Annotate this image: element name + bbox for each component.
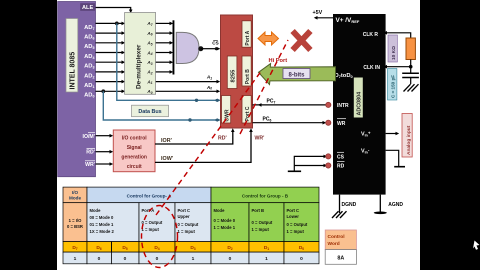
svg-text:1 = Input: 1 = Input — [178, 229, 196, 234]
svg-text:generation: generation — [121, 155, 147, 161]
wire CS to 8255 — [201, 48, 217, 50]
ALE label — [80, 3, 95, 11]
svg-text:0: 0 — [156, 256, 159, 262]
svg-text:0 = BSR: 0 = BSR — [67, 224, 83, 229]
svg-text:0 = Output: 0 = Output — [178, 222, 199, 227]
svg-text:A2: A2 — [146, 70, 152, 76]
svg-text:AGND: AGND — [388, 202, 403, 208]
resistor value label — [388, 35, 397, 62]
I/O mode header — [63, 187, 87, 203]
svg-text:RD': RD' — [86, 150, 95, 156]
node WR dot — [326, 120, 331, 125]
data bus line 2 — [103, 91, 218, 120]
wire A1 to 8255 — [156, 81, 218, 83]
svg-text:CS: CS — [337, 154, 345, 160]
svg-text:0: 0 — [300, 256, 303, 262]
svg-text:Control: Control — [328, 234, 345, 240]
table D7..D0 bit labels — [72, 245, 304, 251]
AGND leg — [379, 195, 381, 212]
svg-text:Control for Group - B: Control for Group - B — [242, 194, 289, 199]
svg-text:RD: RD — [337, 164, 345, 170]
annotation dashed callout lines — [142, 40, 289, 268]
wire Vin+ to analog input — [386, 133, 397, 135]
svg-text:0 = Mode 0: 0 = Mode 0 — [214, 218, 236, 223]
svg-text:1: 1 — [265, 256, 268, 262]
group A header — [87, 187, 211, 203]
de-multiplexer block — [125, 13, 156, 95]
wire CLK R to resistor — [386, 33, 411, 38]
table mode description texts — [67, 208, 308, 234]
wire IOW to 8255 WR — [155, 132, 251, 163]
svg-text:Port C: Port C — [178, 208, 191, 213]
svg-text:De-multiplexer: De-multiplexer — [136, 44, 143, 89]
svg-text:10 KΩ: 10 KΩ — [391, 46, 397, 60]
svg-text:0: 0 — [229, 256, 232, 262]
pin labels IO/M RD WR — [83, 134, 95, 168]
svg-text:CLK IN: CLK IN — [363, 65, 380, 71]
port A box — [242, 21, 251, 47]
value row — [63, 252, 87, 264]
row2 inner split D6/D5 — [111, 242, 113, 253]
arrowheads A7..A2 into gate bar — [170, 22, 174, 74]
svg-text:Lower: Lower — [287, 214, 300, 219]
+5V supply — [315, 17, 333, 19]
wires IO/M RD WR to control circuit — [96, 136, 111, 164]
svg-text:RD': RD' — [218, 135, 227, 141]
8-bit data arrow to port B — [259, 64, 336, 85]
Data Bus label — [132, 105, 169, 117]
svg-text:0 = Output: 0 = Output — [142, 220, 163, 225]
svg-text:A0: A0 — [206, 85, 212, 91]
svg-text:CLK R: CLK R — [363, 32, 379, 38]
gate U1 body — [176, 32, 199, 63]
svg-text:A1: A1 — [206, 75, 212, 81]
svg-text:0 = Output: 0 = Output — [287, 222, 308, 227]
svg-text:CS: CS — [212, 40, 218, 45]
node AD0 tap — [101, 89, 105, 93]
svg-text:A1: A1 — [146, 79, 152, 85]
svg-text:A5: A5 — [146, 41, 152, 47]
control word box — [325, 230, 356, 250]
svg-text:1 = Input: 1 = Input — [142, 227, 160, 232]
svg-text:Control for Group- A: Control for Group- A — [127, 194, 172, 199]
svg-text:8255: 8255 — [231, 69, 237, 83]
svg-text:1 = Input: 1 = Input — [252, 227, 270, 232]
DGND leg — [339, 195, 341, 213]
svg-text:IO/M': IO/M' — [83, 134, 95, 140]
bus arrows into 8255 — [217, 99, 221, 103]
svg-text:Analog input: Analog input — [406, 125, 412, 155]
wire ALE — [96, 8, 131, 11]
svg-text:circuit: circuit — [127, 164, 142, 170]
svg-text:A3: A3 — [146, 60, 152, 66]
ADC0804 block — [333, 14, 386, 195]
ground (clock cap) — [404, 84, 419, 91]
svg-text:00 = Mode 0: 00 = Mode 0 — [90, 215, 115, 220]
svg-text:INTR: INTR — [337, 103, 349, 109]
mouse cursor — [473, 241, 480, 250]
port B box — [242, 56, 251, 86]
ground (Vin-) — [394, 166, 405, 168]
ground DGND — [332, 211, 347, 218]
svg-text:Port A: Port A — [245, 30, 251, 45]
svg-text:0: 0 — [98, 256, 101, 262]
row2 cells — [63, 203, 87, 242]
gate input bar — [173, 20, 175, 74]
port C box — [242, 96, 251, 124]
svg-text:V+ /VREF: V+ /VREF — [336, 17, 360, 24]
port A bidirectional arrow — [258, 32, 279, 45]
wire CLK IN / resistor bottom — [386, 66, 411, 68]
svg-text:8A: 8A — [337, 256, 344, 262]
wire PC6 — [253, 122, 326, 124]
arrowheads into demux — [122, 22, 126, 94]
8255 label — [227, 56, 237, 89]
table header texts — [69, 190, 289, 201]
content area — [57, 0, 420, 270]
table — [63, 187, 319, 264]
svg-text:1: 1 — [74, 256, 77, 262]
wires AD7..AD0 — [96, 23, 124, 91]
svg-text:A7: A7 — [146, 21, 152, 27]
node RD dot — [326, 163, 331, 168]
svg-text:Signal: Signal — [127, 145, 143, 151]
svg-text:Hi Port: Hi Port — [269, 58, 288, 64]
demux output labels — [146, 21, 152, 95]
svg-text:Port B: Port B — [245, 69, 251, 84]
8-bits value label — [283, 69, 310, 79]
svg-text:0: 0 — [124, 256, 127, 262]
svg-text:1 = I/O: 1 = I/O — [69, 218, 82, 223]
gate output node — [198, 46, 203, 51]
node AD7 tap — [115, 22, 119, 26]
svg-text:A4: A4 — [146, 50, 152, 56]
I/O control signal generation circuit — [113, 130, 155, 172]
svg-text:D7toD0: D7toD0 — [335, 73, 353, 79]
8255 PPI block — [221, 15, 253, 128]
svg-text:WR': WR' — [255, 135, 265, 141]
svg-text:01 = Mode 1: 01 = Mode 1 — [90, 222, 115, 227]
capacitor value label — [388, 69, 397, 101]
bus junction dots — [195, 99, 198, 102]
pins AD7..AD0 labels — [84, 25, 94, 99]
svg-text:Mode: Mode — [214, 208, 226, 213]
svg-text:1 = Input: 1 = Input — [287, 229, 305, 234]
D row — [63, 242, 87, 253]
svg-text:Mode: Mode — [90, 208, 102, 213]
node INTR dot — [326, 102, 331, 107]
ground tie for CS/RD — [294, 156, 326, 171]
svg-text:IOW': IOW' — [161, 156, 173, 162]
svg-text:DGND: DGND — [342, 202, 357, 208]
svg-text:Word: Word — [328, 241, 340, 247]
wire Vin- to ground — [386, 150, 399, 166]
svg-text:WR': WR' — [85, 162, 95, 168]
analog input label — [402, 114, 412, 158]
data bus line 1 — [117, 23, 219, 100]
wire A0 to 8255 — [156, 90, 218, 92]
svg-text:8-bits: 8-bits — [288, 72, 305, 78]
svg-text:Upper: Upper — [178, 214, 190, 219]
CPU 8085 block — [58, 2, 96, 177]
overlines — [85, 133, 95, 161]
svg-text:ALE: ALE — [82, 5, 93, 11]
svg-text:WR: WR — [337, 121, 346, 127]
node CS dot — [326, 154, 331, 159]
svg-text:I/O control: I/O control — [122, 136, 148, 142]
group B header — [211, 187, 319, 203]
svg-text:IOR': IOR' — [161, 138, 172, 144]
ground AGND — [374, 212, 387, 215]
not-used cross — [293, 31, 311, 50]
svg-text:C = 150 pF: C = 150 pF — [391, 75, 396, 98]
resistor R1 — [406, 38, 415, 60]
svg-text:I/O: I/O — [72, 190, 79, 195]
annotation dashed ellipse around Port-A column — [142, 206, 178, 268]
svg-text:INTEL 8085: INTEL 8085 — [70, 52, 77, 90]
CWR box — [222, 96, 231, 124]
svg-text:+5V: +5V — [313, 10, 323, 16]
svg-text:ADC0804: ADC0804 — [357, 92, 363, 116]
svg-text:Port B: Port B — [252, 208, 265, 213]
svg-text:1X = Mode 2: 1X = Mode 2 — [90, 229, 115, 234]
svg-text:1 = Mode 1: 1 = Mode 1 — [214, 225, 236, 230]
wires A7..A2 to gate bar — [156, 23, 171, 72]
svg-text:A6: A6 — [146, 31, 152, 37]
wire PC7 — [253, 104, 329, 106]
wire IOR to 8255 RD — [155, 132, 233, 145]
INTEL 8085 label — [66, 19, 78, 93]
svg-text:Data Bus: Data Bus — [138, 109, 161, 115]
svg-text:A0: A0 — [146, 89, 152, 95]
svg-text:0 = Output: 0 = Output — [252, 220, 273, 225]
capacitor C1 — [402, 72, 419, 74]
svg-text:1: 1 — [192, 256, 195, 262]
svg-text:Mode: Mode — [69, 196, 81, 201]
table bit value row 10001010 — [74, 256, 304, 262]
svg-text:Port C: Port C — [287, 208, 300, 213]
